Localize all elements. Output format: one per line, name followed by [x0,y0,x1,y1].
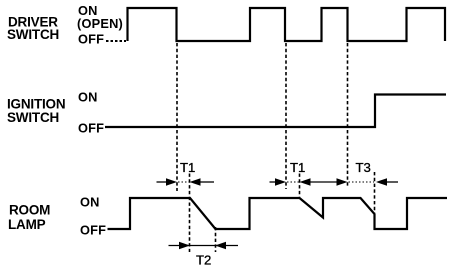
svg-text:OFF: OFF [78,32,104,47]
dashed line lamp fade1 start x=189.5 [189,174,191,253]
svg-text:SWITCH: SWITCH [7,27,59,42]
label IGNITION SWITCH [7,97,65,126]
arrow double between T1 and T3 [300,178,348,186]
wire room lamp waveform [108,198,448,229]
dotted gap T3 [349,181,375,183]
dashed line lamp fade2 start x=299.5 [299,174,301,198]
svg-text:ON: ON [80,195,100,210]
svg-text:LAMP: LAMP [8,217,46,232]
arrow T2 right head [215,242,226,250]
arrow T1 second left [270,178,287,186]
dashed line driver pulse2 fall x=286 [285,43,287,189]
dashed line driver pulse3 fall x=347.5 [347,43,349,188]
svg-text:OFF: OFF [80,223,106,238]
wire ignition switch waveform [105,95,446,128]
svg-text:ROOM: ROOM [9,203,50,218]
svg-text:T1: T1 [290,160,305,175]
arrow T3 right [376,178,398,186]
label ROOM LAMP [8,203,50,233]
arrow T1 first right [190,178,215,186]
svg-text:OFF: OFF [78,121,104,136]
svg-text:T3: T3 [356,160,371,175]
arrow T1 first left [157,178,178,186]
dashed line driver pulse1 fall x=177 [176,43,178,191]
svg-text:T2: T2 [196,253,211,268]
svg-text:(OPEN): (OPEN) [77,16,123,31]
svg-text:SWITCH: SWITCH [7,110,59,125]
dotted gap T1 first [178,181,189,183]
dotted gap T1 second [287,181,299,183]
arrow T2 measure line [169,245,239,247]
wire driver switch OFF lead-in [106,40,126,42]
svg-text:T1: T1 [180,160,195,175]
label DRIVER SWITCH [7,15,59,43]
svg-text:ON: ON [78,90,98,105]
wire driver switch waveform [128,8,446,41]
dashed line lamp fade1 end x=215.5 [215,227,217,252]
dashed line lamp forced off x=374.5 [374,172,376,213]
label driver ON (OPEN) [77,3,123,31]
arrow T2 left head [179,242,190,250]
